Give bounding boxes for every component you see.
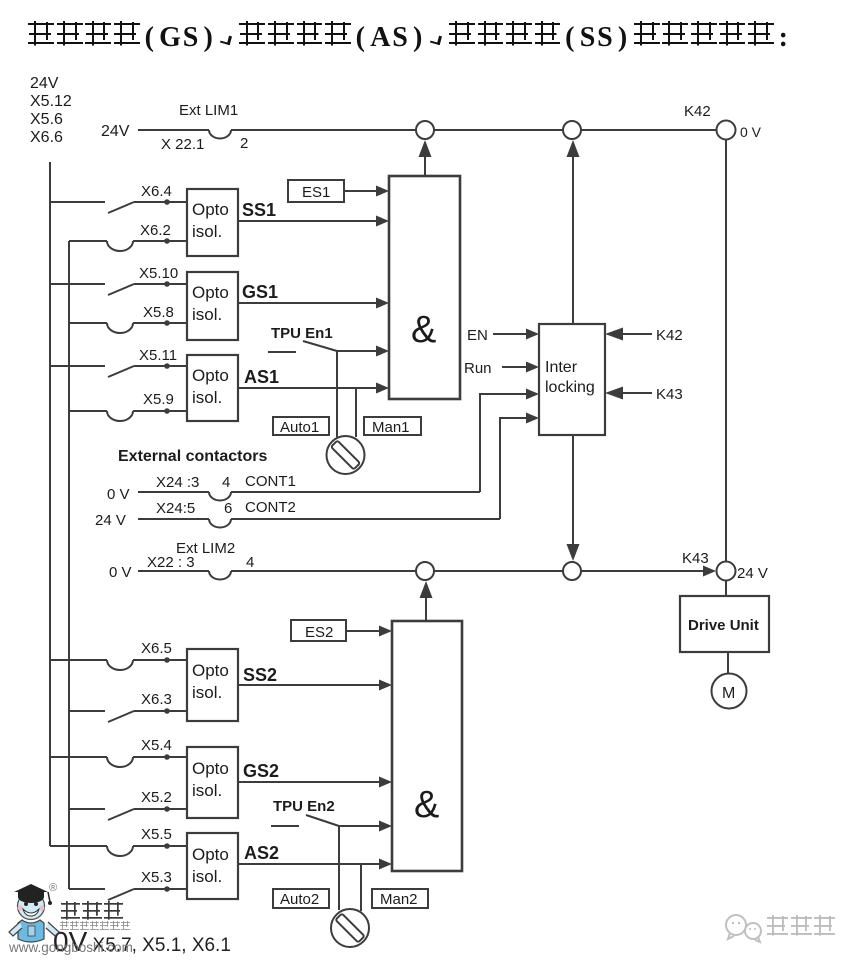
- switch X5.2 row wire: [69, 806, 187, 820]
- svg-text:Man1: Man1: [372, 419, 410, 436]
- watermark brand text right: [766, 915, 836, 942]
- svg-text:X5.5: X5.5: [141, 826, 172, 843]
- svg-text:X5.11: X5.11: [139, 347, 177, 364]
- wire: Ext LIM1 top line: [138, 129, 209, 131]
- svg-text:CONT1: CONT1: [245, 473, 296, 490]
- svg-text:X6.5: X6.5: [141, 640, 172, 657]
- node circle on lower line (AND2 output tie): [416, 562, 434, 580]
- block Man1: [364, 417, 421, 436]
- wire K43 into interlock: [605, 386, 683, 403]
- wire: 0V return rail (second left vertical): [68, 241, 70, 889]
- svg-text:AS1: AS1: [244, 367, 279, 387]
- svg-text:X5.12: X5.12: [30, 93, 72, 110]
- connector X6.5 row wire with bump: [50, 657, 187, 670]
- svg-text:SS1: SS1: [242, 200, 276, 220]
- motor M1: [712, 674, 747, 709]
- svg-text:TPU En1: TPU En1: [271, 325, 333, 342]
- svg-text:Auto2: Auto2: [280, 891, 319, 908]
- wire Ext LIM2 line: [138, 566, 716, 580]
- svg-text:GS2: GS2: [243, 761, 279, 781]
- svg-text:isol.: isol.: [192, 388, 222, 407]
- svg-text:Opto: Opto: [192, 845, 229, 864]
- node circle on lower line (interlock tie): [563, 562, 581, 580]
- wire AS2 to AND2: [238, 859, 392, 870]
- wire: 24V supply rail (left vertical): [49, 162, 51, 846]
- svg-text:X5.4: X5.4: [141, 737, 172, 754]
- svg-text:X5.8: X5.8: [143, 304, 174, 321]
- wire SS1 to AND1: [238, 216, 389, 227]
- connector X22.1-2 bump: [209, 130, 231, 139]
- key operator switch S1: [327, 436, 365, 474]
- svg-text:6: 6: [224, 500, 232, 517]
- svg-text:X5.3: X5.3: [141, 869, 172, 886]
- svg-text:24V: 24V: [30, 75, 59, 92]
- wire CONT2 row with connector bump: [138, 519, 500, 528]
- svg-text:isol.: isol.: [192, 683, 222, 702]
- watermark (R) mark: [49, 882, 57, 894]
- wire ES2 to AND2: [346, 626, 392, 637]
- wire SS2 to AND2: [238, 680, 392, 691]
- wire AS1 branch down to key switch: [355, 388, 357, 437]
- switch X5.3 row wire: [69, 886, 187, 900]
- watermark mascot logo: [6, 880, 62, 954]
- svg-text:isol.: isol.: [192, 781, 222, 800]
- svg-text:EN: EN: [467, 327, 488, 344]
- switch X6.4 row wire: [50, 199, 187, 213]
- svg-text:4: 4: [222, 474, 230, 491]
- wire GS1 to AND1: [238, 298, 389, 309]
- AND gate U4: [389, 176, 460, 399]
- svg-text:X6.6: X6.6: [30, 129, 63, 146]
- switch X6.3 row wire: [69, 708, 187, 722]
- wire AND2 output up to lower line: [420, 581, 433, 621]
- svg-text:0 V: 0 V: [107, 486, 130, 503]
- node circle on top line (AND1 output tie): [416, 121, 434, 139]
- svg-text:X5.10: X5.10: [139, 265, 178, 282]
- svg-text:K43: K43: [682, 550, 709, 567]
- wire ES1 to AND1: [344, 186, 389, 197]
- svg-text:isol.: isol.: [192, 867, 222, 886]
- wire AND1 output up to top line: [419, 140, 432, 176]
- svg-text:24 V: 24 V: [737, 565, 768, 582]
- svg-text:Opto: Opto: [192, 283, 229, 302]
- wire K42 into interlock: [605, 327, 683, 344]
- wire K43 down to Drive Unit: [725, 581, 727, 596]
- wire CONT2 feedback into interlock: [500, 413, 539, 520]
- svg-text:X5.9: X5.9: [143, 391, 174, 408]
- block Auto1: [273, 417, 329, 436]
- wire: right rail K42 to K43: [725, 140, 727, 562]
- block Drive Unit: [680, 596, 769, 652]
- svg-text:X6.4: X6.4: [141, 183, 172, 200]
- svg-text:TPU En2: TPU En2: [273, 798, 335, 815]
- block ES1: [288, 180, 344, 202]
- svg-text:Opto: Opto: [192, 759, 229, 778]
- node K43 terminal circle: [717, 562, 736, 581]
- svg-text:&: &: [411, 309, 436, 351]
- svg-text:Opto: Opto: [192, 661, 229, 680]
- switch TPU En1: [268, 341, 337, 352]
- switch TPU En2: [271, 815, 339, 826]
- block Auto2: [273, 889, 329, 908]
- wire interlock output up to top line: [567, 140, 580, 324]
- svg-text:X6.3: X6.3: [141, 691, 172, 708]
- svg-text:SS2: SS2: [243, 665, 277, 685]
- svg-text:K42: K42: [656, 327, 683, 344]
- svg-text:K43: K43: [656, 386, 683, 403]
- svg-text:0 V: 0 V: [740, 124, 762, 140]
- connector X5.5 row wire with bump: [50, 843, 187, 856]
- connector X5.8 row wire with bump: [69, 320, 187, 333]
- wire EN input: [493, 329, 539, 340]
- opto isolator U7: [187, 649, 238, 721]
- AND gate U6: [392, 621, 462, 871]
- wire AS1 to AND1: [238, 383, 389, 394]
- watermark bubble icon: [722, 912, 768, 946]
- wire TPU En2 to AND2: [339, 821, 392, 832]
- node K42 terminal circle: [717, 121, 736, 140]
- wire Drive Unit to motor: [727, 652, 729, 674]
- svg-text:X5.2: X5.2: [141, 789, 172, 806]
- opto isolator U3: [187, 355, 238, 421]
- svg-text:0 V: 0 V: [109, 564, 132, 581]
- connector X5.9 row wire with bump: [69, 408, 187, 421]
- wire Run input: [502, 362, 539, 373]
- connector X5.4 row wire with bump: [50, 754, 187, 767]
- opto isolator U9: [187, 833, 238, 899]
- wire interlock output down to lower line: [567, 435, 580, 561]
- wire AS2 branch down to key switch: [360, 864, 362, 911]
- connector X6.2 row wire with bump: [69, 238, 187, 251]
- svg-text:24 V: 24 V: [95, 512, 126, 529]
- svg-text:K42: K42: [684, 103, 711, 120]
- svg-text:X5.6: X5.6: [30, 111, 63, 128]
- opto isolator U2: [187, 272, 238, 340]
- svg-text:24V: 24V: [101, 123, 130, 140]
- svg-text:X6.2: X6.2: [140, 222, 171, 239]
- svg-text:Man2: Man2: [380, 891, 418, 908]
- svg-text:4: 4: [246, 554, 254, 571]
- svg-text:CONT2: CONT2: [245, 499, 296, 516]
- svg-text:Auto1: Auto1: [280, 419, 319, 436]
- interlocking block U5: [539, 324, 605, 435]
- wire CONT1 feedback into interlock: [480, 389, 539, 493]
- svg-text:External contactors: External contactors: [118, 448, 267, 465]
- switch X5.10 row wire: [50, 281, 187, 295]
- node circle on top line (interlock tie): [563, 121, 581, 139]
- svg-text:X22 : 3: X22 : 3: [147, 554, 195, 571]
- svg-text:X24:5: X24:5: [156, 500, 195, 517]
- svg-text:X24 :3: X24 :3: [156, 474, 199, 491]
- watermark brand text: [60, 901, 124, 926]
- svg-text:ES1: ES1: [302, 184, 330, 201]
- svg-text:Inter: Inter: [545, 359, 578, 376]
- svg-text:M: M: [722, 685, 735, 702]
- wire TPU En1 to AND1: [337, 346, 389, 357]
- switch X5.11 row wire: [50, 363, 187, 377]
- wire: top line continuation to K42: [231, 129, 717, 131]
- opto isolator U1: [187, 189, 238, 256]
- opto isolator U8: [187, 747, 238, 818]
- svg-text:ES2: ES2: [305, 624, 333, 641]
- key operator switch S2: [331, 909, 369, 947]
- svg-text:Drive Unit: Drive Unit: [688, 617, 759, 634]
- svg-text:Opto: Opto: [192, 366, 229, 385]
- wire TPU En2 down to key switch: [338, 826, 340, 910]
- svg-text:2: 2: [240, 135, 248, 152]
- title text: [27, 20, 793, 54]
- svg-text:locking: locking: [545, 379, 595, 396]
- wire CONT1 row with connector bump: [138, 492, 480, 501]
- svg-text:GS1: GS1: [242, 282, 278, 302]
- wire TPU En1 down to key switch: [336, 351, 338, 437]
- svg-text:X 22.1: X 22.1: [161, 136, 204, 153]
- label 0V X5.7, X5.1, X6.1 (bottom rail name): [53, 926, 231, 958]
- node labels 24V X5.12 X5.6 X6.6 (left rail name): [30, 75, 72, 146]
- svg-text:isol.: isol.: [192, 222, 222, 241]
- svg-text:AS2: AS2: [244, 843, 279, 863]
- block ES2: [291, 620, 346, 641]
- svg-text:Ext LIM1: Ext LIM1: [179, 102, 238, 119]
- watermark slogan text: [59, 921, 130, 933]
- watermark url text: [9, 940, 133, 955]
- wire GS2 to AND2: [238, 777, 392, 788]
- svg-text:Run: Run: [464, 360, 492, 377]
- block Man2: [372, 889, 428, 908]
- svg-text:&: &: [414, 784, 439, 826]
- svg-text:isol.: isol.: [192, 305, 222, 324]
- svg-text:Opto: Opto: [192, 200, 229, 219]
